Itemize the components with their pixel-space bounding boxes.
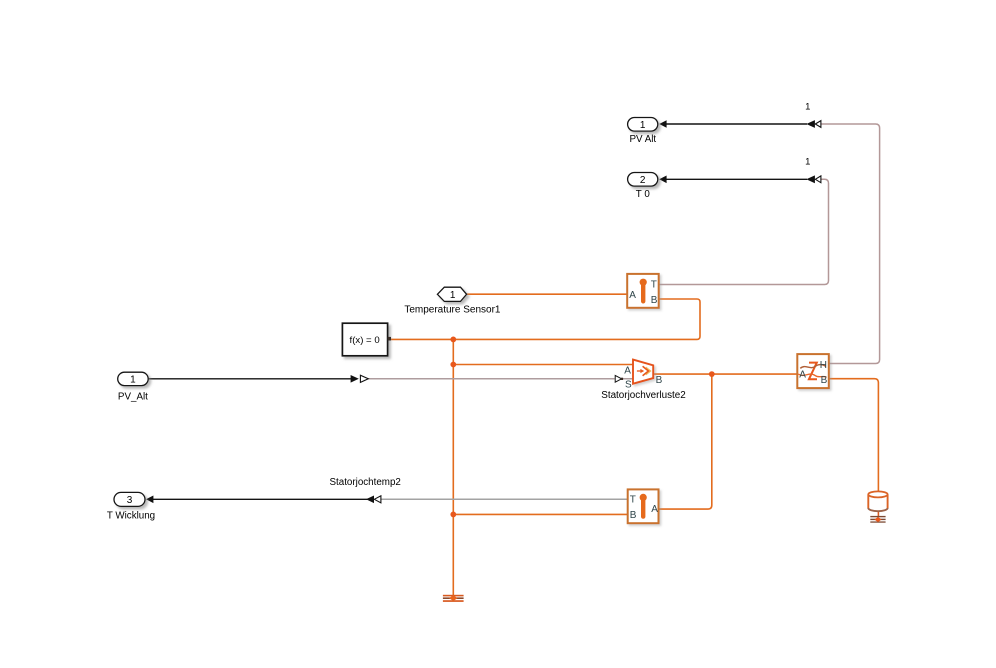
wire: thermal mass to reference stub (orange): [877, 511, 879, 517]
wire: convection B to thermal mass (orange): [829, 379, 879, 492]
svg-text:T: T: [651, 280, 657, 291]
svg-text:Statorjochtemp2: Statorjochtemp2: [330, 477, 401, 488]
svg-text:Statorjochverluste2: Statorjochverluste2: [601, 390, 686, 401]
wire: branch down to Statorjochtemp2 A (orange): [659, 374, 712, 509]
svg-text:T: T: [630, 494, 636, 505]
wire: physical signal to S port (rosy): [369, 378, 634, 380]
label 1 above T 0 arrow: [805, 156, 810, 167]
svg-text:A: A: [629, 290, 636, 301]
wire: inport PV_Alt signal (black): [148, 378, 351, 380]
svg-text:1: 1: [640, 120, 646, 131]
svg-text:3: 3: [127, 495, 133, 506]
thermometer icon: [641, 284, 645, 301]
svg-text:T 0: T 0: [636, 189, 651, 200]
svg-text:2: 2: [640, 175, 646, 186]
svg-text:A: A: [624, 365, 631, 376]
icon: Z with wavy lines: [809, 363, 817, 380]
svg-text:PV_Alt: PV_Alt: [118, 391, 148, 402]
label 1 above PV Alt arrow: [805, 101, 810, 112]
svg-text:B: B: [821, 375, 828, 386]
wire: hexagon port to sensor1 A (orange): [467, 293, 628, 295]
mid arrowheads on T 0 line: [806, 175, 821, 183]
thermal reference (under mass): [870, 516, 885, 523]
wire: Statorjochtemp2 T output (gray): [381, 498, 628, 500]
wire: Statorjochverluste2 B to convection A (orange): [653, 373, 797, 375]
convective heat transfer block (A/H/B): [797, 354, 829, 388]
mid arrowheads on T Wicklung line: [366, 496, 381, 504]
outport 2 T 0: [628, 173, 658, 201]
svg-text:1: 1: [805, 156, 810, 167]
junction node at temp2 B net: [450, 512, 456, 518]
outport 3 T Wicklung: [107, 492, 155, 521]
inport 1 PV_Alt: [118, 372, 149, 402]
icon: arrow with double chevron: [646, 367, 651, 374]
wire: net to Statorjochverluste2 A (orange): [453, 364, 633, 366]
thermometer icon: [641, 499, 645, 516]
svg-text:T Wicklung: T Wicklung: [107, 511, 155, 522]
arrowhead into outport 2: [659, 176, 666, 184]
arrowheads on PV_Alt inport line: [351, 375, 369, 383]
mid arrowheads on PV Alt line: [806, 120, 821, 128]
svg-text:PV Alt: PV Alt: [629, 134, 656, 145]
thermal reference (main, bottom): [443, 595, 464, 602]
wire: signal line to outport T 0 (black): [666, 178, 807, 180]
temperature sensor block Statorjochtemp2 (bottom): [330, 477, 659, 523]
controlled heat flow source Statorjochverluste2: [601, 360, 686, 401]
thermal mass block (cylinder): [868, 491, 887, 511]
junction node at verluste B net: [709, 371, 715, 377]
open arrowhead at S port: [615, 375, 623, 382]
svg-text:1: 1: [450, 290, 456, 301]
svg-text:Temperature Sensor1: Temperature Sensor1: [404, 304, 501, 315]
svg-text:H: H: [820, 360, 827, 371]
arrowhead into outport 1: [659, 120, 666, 128]
junction node at verluste A net: [450, 362, 456, 368]
arrowhead into outport 3: [146, 496, 153, 504]
wire: vertical thermal net to reference (orange): [452, 339, 454, 595]
svg-text:f(x) = 0: f(x) = 0: [350, 335, 380, 346]
svg-text:B: B: [630, 510, 637, 521]
svg-text:1: 1: [805, 101, 810, 112]
solver configuration block f(x) = 0: [342, 323, 391, 356]
wire: Statorjochtemp2 B to vertical net (orange): [453, 513, 627, 515]
wire: f(x)=0 to sensor1 B net (orange): [391, 299, 700, 339]
wire: physical line from sensor T port up to T 0 arrow (rosy): [659, 179, 829, 284]
wire: physical line from convection H port up to PV Alt arrow (rosy): [821, 124, 880, 364]
outport 1 PV Alt: [628, 118, 658, 146]
temperature sensor block U1 (top): [627, 274, 659, 308]
svg-text:1: 1: [130, 375, 136, 386]
svg-text:A: A: [651, 504, 658, 515]
svg-text:B: B: [651, 295, 658, 306]
wire: signal line to outport PV Alt (black): [666, 123, 807, 125]
svg-text:S: S: [625, 379, 632, 390]
junction node at f(x) net: [450, 337, 456, 343]
svg-text:A: A: [799, 370, 806, 381]
wire: signal line to outport T Wicklung (black): [153, 498, 375, 500]
svg-text:B: B: [656, 375, 663, 386]
connection port hexagon Temperature Sensor1: [404, 287, 501, 315]
